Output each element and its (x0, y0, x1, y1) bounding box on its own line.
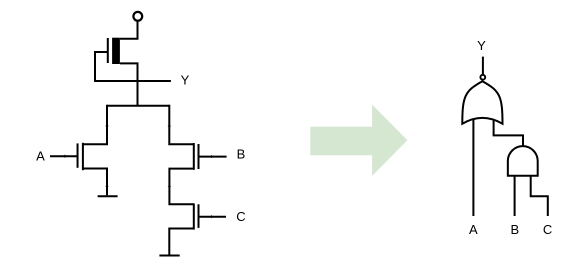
svg-text:C: C (236, 209, 245, 224)
svg-text:B: B (510, 222, 519, 237)
svg-text:A: A (36, 149, 45, 164)
svg-text:B: B (237, 147, 246, 162)
svg-text:Y: Y (477, 38, 486, 53)
svg-text:A: A (469, 222, 478, 237)
svg-text:C: C (543, 222, 552, 237)
svg-text:Y: Y (181, 73, 190, 88)
